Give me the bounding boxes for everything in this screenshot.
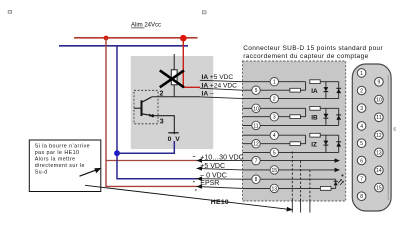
diode DA1 (324, 82, 329, 99)
row pin12 (243, 143, 290, 145)
jog 4-12 (305, 135, 307, 144)
svg-text:3: 3 (273, 115, 276, 121)
resistor R3 (290, 115, 301, 119)
svg-text:4: 4 (273, 133, 276, 139)
resistor R4 (310, 133, 320, 137)
+24V rail (74, 37, 198, 39)
svg-text:raccordement du capteur de com: raccordement du capteur de comptage (243, 53, 368, 60)
blue wire to ground 0V (117, 141, 174, 153)
optocoupler internal gray block (131, 56, 213, 149)
HE10 dashed drop v3 (309, 170, 311, 199)
resistor R9 (290, 88, 301, 92)
svg-text:Su-d: Su-d (35, 169, 48, 175)
svg-text:IA +5 VDC: IA +5 VDC (202, 74, 234, 81)
svg-text:10: 10 (253, 106, 259, 112)
svg-text:IZ: IZ (311, 141, 317, 148)
transistor Q1 (141, 100, 143, 116)
svg-text:2: 2 (273, 97, 276, 103)
row pin10 (243, 107, 306, 109)
blue wire drop (117, 46, 197, 179)
svg-text:EPSR: EPSR (200, 180, 219, 187)
row pin15 with arrow (243, 169, 336, 171)
svg-text:8: 8 (360, 194, 363, 200)
svg-text:3: 3 (360, 106, 363, 112)
transistor dashed box (134, 90, 158, 124)
svg-text:6: 6 (360, 158, 363, 164)
DB15 pins 9-15 (375, 78, 384, 192)
svg-text:14: 14 (376, 168, 382, 174)
LED D13 (334, 175, 344, 189)
svg-text:0: 0 (168, 136, 172, 143)
crossed resistor vertical lead (173, 54, 175, 97)
DB15 pins 1-8 (357, 69, 366, 201)
row pin13 (243, 187, 321, 189)
crossed resistor R body (171, 70, 177, 85)
svg-text:10: 10 (376, 98, 382, 104)
diode DB2 (336, 108, 341, 125)
svg-text:V: V (175, 136, 180, 143)
svg-text:IB: IB (311, 114, 318, 121)
rail R4 to diodes (320, 134, 339, 136)
svg-text:5: 5 (360, 141, 363, 147)
row pin1 (243, 81, 306, 83)
resistor R1 (310, 80, 320, 84)
svg-text:15: 15 (376, 186, 382, 192)
red wire drop left (106, 38, 197, 186)
svg-text:2: 2 (160, 90, 164, 97)
svg-text:4: 4 (360, 124, 363, 130)
svg-text:5: 5 (273, 150, 276, 156)
svg-text:7: 7 (360, 176, 363, 182)
diode DB1 (324, 108, 329, 125)
svg-text:11: 11 (253, 123, 258, 129)
junction dot J2 (180, 35, 187, 42)
diode DZ1 (324, 135, 329, 152)
svg-text:directement sur le: directement sur le (35, 163, 85, 169)
svg-text:13: 13 (376, 150, 382, 156)
svg-text:Si la bourre n’arrive: Si la bourre n’arrive (35, 144, 90, 150)
row pin4 (243, 134, 306, 136)
note arrow (80, 170, 97, 176)
svg-text:9: 9 (255, 88, 258, 94)
HE10 dashed drop v2 (300, 161, 302, 199)
svg-text:11: 11 (376, 115, 381, 121)
svg-text:7: 7 (255, 159, 258, 165)
row pin3 (243, 116, 290, 118)
resistor R10 (310, 106, 320, 110)
junction dot J1 (104, 36, 109, 41)
handle square right (202, 11, 206, 14)
svg-text:Connecteur SUB-D 15 points sta: Connecteur SUB-D 15 points standard pour (243, 45, 383, 52)
rail R1 to diodes (320, 81, 339, 83)
row pin7 with arrow (243, 160, 336, 162)
long diagonal HE10 arrow (85, 185, 289, 209)
svg-text:15: 15 (272, 168, 278, 174)
ground 0V tick (168, 132, 178, 134)
svg-text:pas par le HE10: pas par le HE10 (35, 150, 80, 156)
emitter junction dot (151, 114, 154, 117)
emitter wire to ground (153, 116, 175, 135)
red wire drop to IA +24 (183, 38, 200, 87)
svg-text:1: 1 (273, 80, 276, 86)
row pin8 (243, 178, 336, 180)
row pin11 (243, 124, 339, 126)
row pin2 (243, 98, 339, 100)
red wire branch +10..30 (106, 160, 197, 162)
HE10 dashed drop v1 (291, 152, 293, 200)
label +10..30 VDC (193, 155, 195, 157)
pin circles (252, 78, 279, 193)
svg-text:Alors la mettre: Alors la mettre (35, 157, 76, 163)
svg-text:IA: IA (311, 88, 318, 95)
diode DA2 (336, 82, 341, 99)
svg-text:3: 3 (160, 118, 164, 125)
svg-text:HE10: HE10 (211, 199, 229, 206)
DB15 connector body (352, 64, 391, 211)
jog 10-3 (305, 108, 307, 116)
svg-text:12: 12 (376, 133, 382, 139)
svg-text:13: 13 (272, 186, 278, 192)
rail R10 to diodes (320, 107, 339, 109)
handle square left (8, 10, 11, 13)
note box (29, 140, 101, 192)
jog 1-9 (305, 82, 307, 91)
diode DZ2 (336, 135, 341, 152)
svg-text:2: 2 (360, 88, 363, 94)
svg-text:8: 8 (255, 177, 258, 183)
collector wire / IA- line (152, 96, 200, 98)
row pin9 (243, 89, 290, 91)
blue junction dot (114, 150, 120, 156)
row pin5 (243, 151, 339, 153)
svg-text:12: 12 (253, 142, 259, 148)
resistor R13 (320, 187, 331, 191)
svg-text:9: 9 (378, 80, 381, 86)
SUB-D breakout dashed box (243, 61, 346, 201)
0V rail (59, 45, 188, 47)
cross X mark (160, 70, 184, 87)
resistor R12 (290, 142, 301, 146)
svg-text:1: 1 (360, 71, 363, 77)
